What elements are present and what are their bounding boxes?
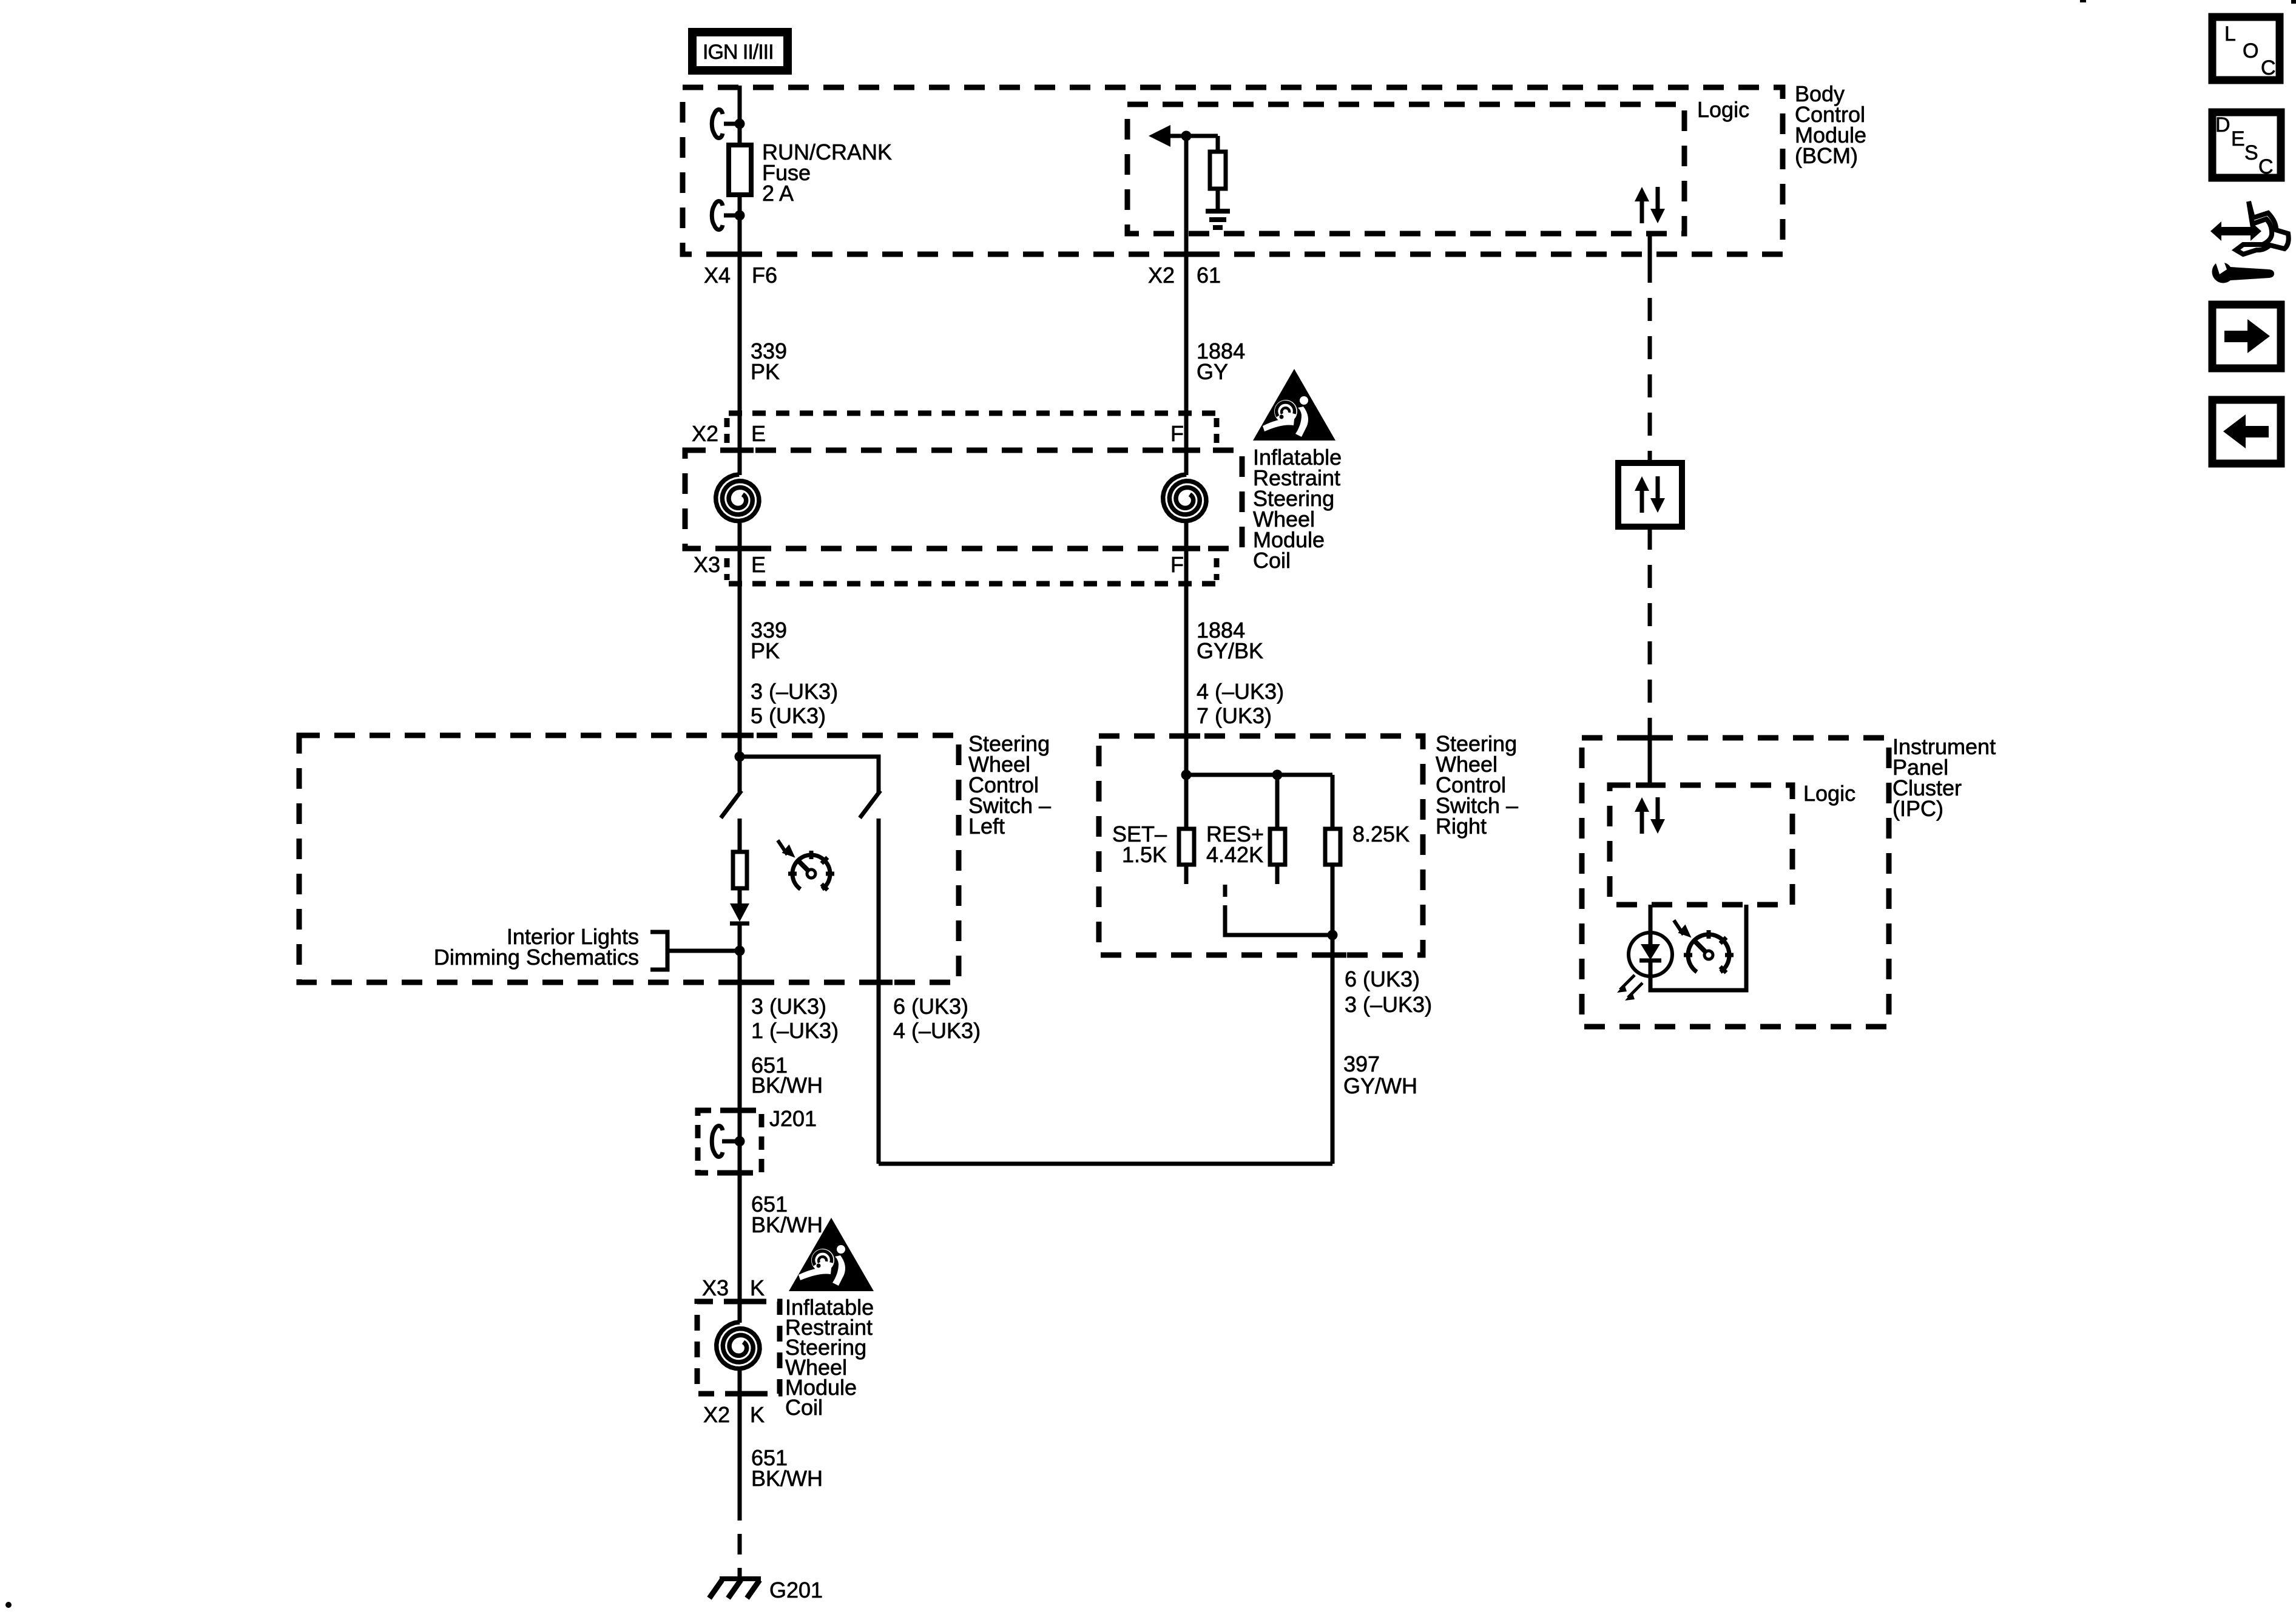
wire label 1884 GY/BK [1197, 618, 1263, 663]
pin label 6/4 [893, 994, 981, 1043]
page edge marks [2080, 0, 2296, 4]
connector row X3 (pins E,F) [694, 552, 1217, 584]
svg-text:Logic: Logic [1697, 97, 1749, 122]
label G201 [769, 1578, 823, 1602]
ground (BCM internal) [1206, 211, 1230, 228]
module box Instrument Panel Cluster (IPC) [1582, 738, 1889, 1027]
svg-text:BK/WH: BK/WH [751, 1073, 823, 1098]
fuse RUN/CRANK 2A [729, 145, 751, 195]
svg-text:Coil: Coil [785, 1395, 823, 1420]
svg-text:6 (UK3): 6 (UK3) [1345, 967, 1420, 991]
resistor (switch-left) [733, 852, 747, 888]
svg-text:PK: PK [751, 638, 780, 663]
wire 651 BK/WH to ground (dashed) [738, 1500, 742, 1579]
connector row X2 (pins E,F) [692, 413, 1217, 446]
svg-text:X3: X3 [694, 552, 720, 577]
module box Inflatable Restraint Steering Wheel Module Coil (upper) [685, 450, 1242, 549]
fuse clip bottom [712, 201, 745, 230]
svg-text:S: S [2244, 141, 2258, 164]
wire variant stub (dashed) [1225, 885, 1332, 935]
svg-text:GY/WH: GY/WH [1343, 1073, 1417, 1098]
svg-text:IGN II/III: IGN II/III [703, 41, 774, 64]
svg-text:2 A: 2 A [762, 181, 794, 206]
coil symbol (lower SWM coil) [717, 1322, 760, 1369]
label RUN/CRANK Fuse 2 A [762, 140, 892, 206]
svg-text:PK: PK [751, 359, 780, 384]
serial data box symbol [1618, 463, 1682, 527]
switch blade left [721, 757, 741, 818]
pin label 3/5 left [751, 679, 838, 728]
label Logic (BCM) [1697, 97, 1749, 122]
wire link SWC left-right bottom [879, 1162, 1332, 1166]
svg-text:F: F [1170, 421, 1184, 446]
svg-text:8.25K: 8.25K [1352, 822, 1410, 846]
svg-text:E: E [751, 421, 766, 446]
signal arrow (BCM input) [1149, 125, 1218, 147]
warning symbol SIR (lower) [789, 1218, 874, 1291]
svg-text:X3: X3 [702, 1275, 729, 1300]
wire label 1884 GY [1197, 339, 1245, 384]
interior lights dimming tap [650, 932, 740, 970]
svg-text:F: F [1170, 552, 1184, 577]
label Logic (IPC) [1803, 781, 1855, 806]
switch blade right [860, 791, 880, 818]
module box Body Control Module (BCM) [683, 87, 1783, 254]
wire through right coil [1172, 523, 1200, 775]
svg-text:7 (UK3): 7 (UK3) [1197, 703, 1272, 728]
wire through left coil [726, 523, 754, 757]
LED indicator (IPC) [1617, 933, 1672, 1001]
serial data arrows (IPC logic) [1635, 797, 1665, 834]
wire label 651 BK/WH (lower) [751, 1445, 823, 1491]
label J201 [769, 1106, 817, 1131]
svg-text:G201: G201 [769, 1578, 823, 1602]
connector label X4 F6 [704, 263, 777, 288]
icon LOC box [2212, 17, 2280, 80]
wire 1884 GY inside BCM down [1172, 136, 1200, 475]
node junction at BCM arrow [1181, 131, 1192, 141]
wire label 397 GY/WH [1343, 1052, 1417, 1098]
svg-text:E: E [751, 552, 766, 577]
svg-text:GY: GY [1197, 359, 1228, 384]
svg-text:397: 397 [1343, 1052, 1380, 1076]
label RES+ 4.42K [1206, 822, 1264, 867]
serial data arrows (BCM logic) [1635, 187, 1665, 223]
svg-text:4 (–UK3): 4 (–UK3) [893, 1018, 981, 1043]
splice J201 box [698, 1110, 761, 1173]
svg-text:L: L [2224, 22, 2236, 46]
svg-text:C: C [2258, 155, 2274, 178]
svg-text:3 (UK3): 3 (UK3) [751, 994, 826, 1019]
gauge icon (dimmer, switch-left) [778, 840, 834, 890]
svg-text:BK/WH: BK/WH [751, 1466, 823, 1491]
wire 397 GY/WH down [1331, 935, 1335, 1164]
diode (switch-left) [730, 888, 749, 1323]
label Body Control Module (BCM) [1795, 81, 1866, 168]
label Inflatable Restraint SWM Coil (lower) [785, 1295, 874, 1420]
svg-text:Logic: Logic [1803, 781, 1855, 806]
label Instrument Panel Cluster (IPC) [1893, 734, 1996, 821]
splice clip J201 [712, 1126, 745, 1157]
label Steering Wheel Control Switch - Right [1436, 731, 1518, 839]
svg-text:J201: J201 [769, 1106, 817, 1131]
power flag IGN II/III [692, 32, 788, 70]
logic box IPC Logic [1610, 785, 1792, 905]
svg-text:5 (UK3): 5 (UK3) [751, 703, 826, 728]
icon DESC box [2212, 112, 2281, 178]
wire right branch down [877, 819, 881, 1164]
connector label X2 61 [1148, 263, 1221, 288]
svg-text:E: E [2231, 127, 2245, 150]
wire LED return loop [1650, 905, 1746, 990]
coil symbol (right, SWM coil) [1163, 474, 1206, 521]
wire label 339 PK [751, 339, 787, 384]
svg-text:O: O [2243, 39, 2258, 62]
svg-text:(IPC): (IPC) [1893, 796, 1943, 821]
svg-text:3 (–UK3): 3 (–UK3) [751, 679, 838, 704]
node junction 397 output [1328, 930, 1338, 940]
gauge icon (dimmer, IPC) [1674, 920, 1734, 973]
svg-text:GY/BK: GY/BK [1197, 638, 1263, 663]
wire switch-left top bus [740, 757, 879, 793]
wire label 651 BK/WH (mid) [751, 1192, 823, 1237]
label Inflatable Restraint SWM Coil (upper) [1253, 445, 1342, 573]
svg-text:K: K [750, 1275, 765, 1300]
label SET- 1.5K [1112, 822, 1167, 867]
wire below lower coil [738, 1371, 742, 1500]
wire label 651 BK/WH (upper) [751, 1053, 823, 1098]
svg-text:X2: X2 [692, 421, 718, 446]
wire serial data link (dashed, upper) [1648, 231, 1652, 463]
resistor RES+ 4.42K [1270, 775, 1285, 884]
module box Inflatable Restraint Steering Wheel Module Coil (lower) [697, 1301, 780, 1394]
node junction RES branch [1272, 770, 1283, 780]
svg-text:X2: X2 [703, 1402, 730, 1427]
node junction switch-left top [735, 752, 745, 762]
svg-text:Right: Right [1436, 814, 1487, 839]
logic box BCM Logic [1127, 104, 1684, 234]
node junction diode output [735, 946, 745, 956]
svg-text:X2: X2 [1148, 263, 1175, 288]
connector label X2 K [703, 1402, 765, 1427]
svg-text:Left: Left [968, 814, 1005, 839]
svg-text:Dimming Schematics: Dimming Schematics [434, 945, 639, 970]
resistor 8.25K [1325, 775, 1340, 935]
wire switch-right top bus [1186, 773, 1332, 777]
coil symbol (left, SWM coil) [716, 474, 759, 521]
svg-text:X4: X4 [704, 263, 731, 288]
pin label 4/7 right [1197, 679, 1284, 728]
svg-text:C: C [2261, 56, 2276, 79]
label 8.25K [1352, 822, 1410, 846]
svg-text:Coil: Coil [1253, 548, 1291, 573]
wire label 339 PK (lower) [751, 618, 787, 663]
page mark [5, 1602, 12, 1608]
icon schematic reference (hand + arrow + wrench) [2210, 201, 2289, 283]
svg-text:D: D [2215, 113, 2230, 137]
ground G201 [709, 1579, 761, 1598]
pin label 6/3 [1345, 967, 1432, 1017]
svg-text:4.42K: 4.42K [1206, 842, 1263, 867]
svg-text:K: K [750, 1402, 765, 1427]
svg-text:61: 61 [1197, 263, 1221, 288]
wire fuse to X4 F6 and down [726, 197, 754, 475]
svg-text:BK/WH: BK/WH [751, 1212, 823, 1237]
wire serial data link (dashed, lower) [1648, 527, 1652, 785]
wire left branch to resistor [738, 819, 742, 850]
node junction SET branch [1181, 770, 1192, 780]
connector label X3 K [702, 1275, 765, 1300]
wire IPC logic to LED [1649, 905, 1653, 933]
module box Steering Wheel Control Switch - Right [1099, 736, 1423, 955]
svg-text:1 (–UK3): 1 (–UK3) [751, 1018, 839, 1043]
icon forward arrow box [2212, 305, 2281, 368]
svg-text:3 (–UK3): 3 (–UK3) [1345, 992, 1432, 1017]
wire IGN feed into BCM [738, 86, 742, 143]
pin label 3/1 [751, 994, 839, 1043]
label Interior Lights Dimming Schematics [434, 924, 639, 970]
svg-text:4 (–UK3): 4 (–UK3) [1197, 679, 1284, 704]
resistor SET- 1.5K [1179, 775, 1194, 884]
svg-text:F6: F6 [752, 263, 777, 288]
resistor (BCM pull-down) [1210, 136, 1226, 209]
svg-text:(BCM): (BCM) [1795, 143, 1858, 168]
warning symbol SIR (upper) [1253, 369, 1335, 441]
fuse clip top [712, 110, 745, 138]
label Steering Wheel Control Switch - Left [968, 731, 1051, 839]
icon back arrow box [2212, 400, 2281, 464]
svg-text:1.5K: 1.5K [1122, 842, 1167, 867]
module box Steering Wheel Control Switch - Left [299, 735, 959, 982]
svg-text:6 (UK3): 6 (UK3) [893, 994, 968, 1019]
